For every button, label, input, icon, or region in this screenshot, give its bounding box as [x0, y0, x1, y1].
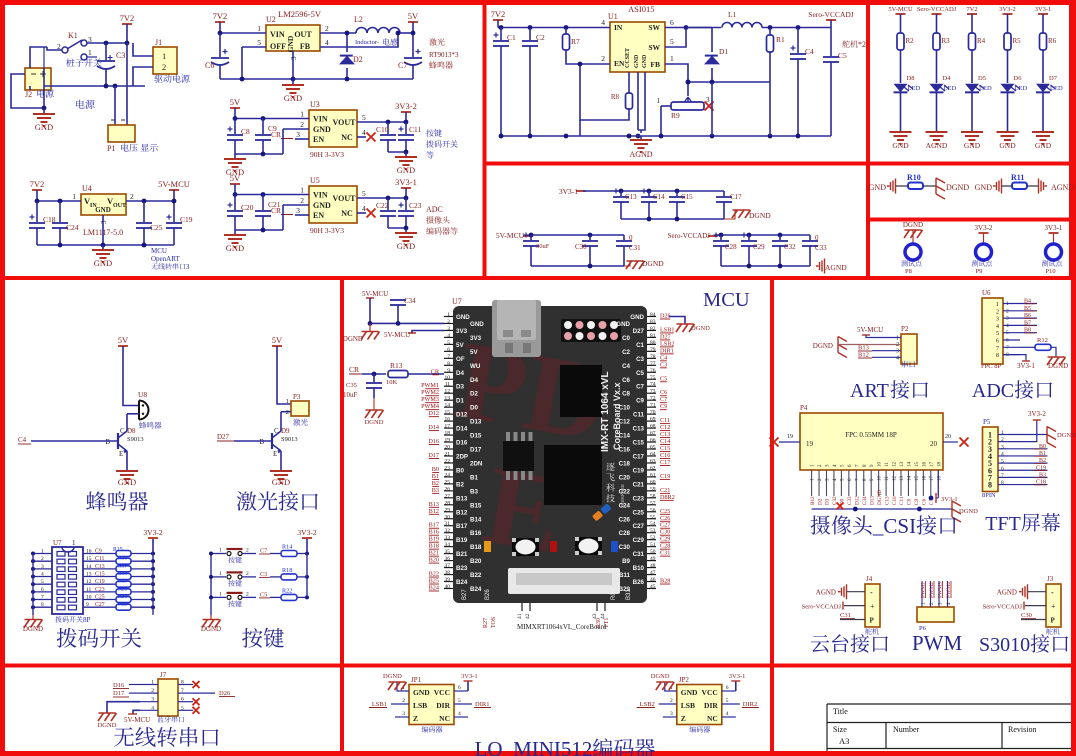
- svg-text:D16: D16: [428, 438, 439, 445]
- svg-text:D1: D1: [719, 47, 728, 56]
- svg-text:32: 32: [445, 528, 451, 534]
- svg-text:5V: 5V: [230, 97, 241, 107]
- P5 signal nets: [1008, 448, 1048, 450]
- connector P4 FPC 18P camera: [800, 413, 943, 470]
- capacitor C18: [35, 199, 40, 204]
- svg-text:VOUT: VOUT: [333, 194, 357, 203]
- svg-text:7V2: 7V2: [120, 13, 135, 23]
- svg-text:GND: GND: [630, 314, 644, 321]
- svg-text:2DP: 2DP: [456, 453, 468, 460]
- SW pin6 wire to L1: [665, 27, 721, 29]
- svg-text:PWM: PWM: [912, 631, 963, 655]
- svg-text:C13: C13: [884, 496, 890, 505]
- svg-text:6: 6: [670, 18, 674, 27]
- DGND for P5 pin1: [1008, 434, 1047, 436]
- svg-text:2: 2: [246, 548, 249, 554]
- svg-text:17: 17: [930, 462, 935, 468]
- svg-text:R22: R22: [282, 587, 292, 594]
- svg-text:5: 5: [41, 579, 44, 585]
- capacitor C3: [105, 43, 107, 60]
- LED D8: [894, 84, 908, 92]
- svg-text:3V3-2: 3V3-2: [297, 528, 316, 537]
- USB connector: [492, 300, 541, 357]
- svg-text:6: 6: [726, 685, 729, 691]
- svg-text:10: 10: [878, 462, 883, 468]
- svg-text:D3: D3: [825, 498, 831, 505]
- capacitor C24: [58, 199, 63, 204]
- svg-text:26: 26: [445, 486, 451, 492]
- connector P6 PWM: [917, 607, 954, 622]
- svg-text:C31: C31: [660, 550, 670, 557]
- svg-text:12: 12: [86, 579, 92, 585]
- section title wireless-serial: [114, 727, 134, 746]
- svg-text:1: 1: [996, 302, 999, 308]
- svg-text:GND: GND: [286, 35, 295, 52]
- capacitor C11: [405, 122, 407, 134]
- capacitor C1: [499, 25, 504, 30]
- svg-text:R11: R11: [1011, 173, 1024, 182]
- svg-text:5: 5: [257, 38, 261, 47]
- svg-text:C7: C7: [660, 396, 667, 403]
- svg-text:C3: C3: [116, 51, 125, 60]
- transistor D9 S9013: [271, 433, 273, 449]
- svg-text:B0: B0: [432, 466, 439, 473]
- svg-text:3: 3: [151, 697, 154, 703]
- capacitor C6: [218, 31, 223, 36]
- capacitor C20: [233, 192, 238, 197]
- svg-text:DGND: DGND: [201, 625, 221, 633]
- svg-text:78: 78: [650, 354, 656, 360]
- svg-text:35: 35: [445, 549, 451, 555]
- svg-text:DGND: DGND: [98, 722, 117, 729]
- svg-text:NC: NC: [341, 133, 353, 142]
- svg-text:B13: B13: [456, 495, 468, 502]
- svg-text:B1: B1: [432, 473, 439, 480]
- svg-text:D6: D6: [1014, 75, 1023, 82]
- svg-text:AGND: AGND: [825, 263, 847, 272]
- svg-text:1: 1: [300, 186, 304, 195]
- svg-text:8: 8: [181, 680, 184, 686]
- svg-text:C2: C2: [622, 349, 630, 356]
- svg-text:4: 4: [362, 204, 366, 213]
- DIP switch U7 body: [52, 547, 83, 614]
- svg-text:16: 16: [922, 476, 927, 482]
- svg-text:3: 3: [402, 711, 405, 717]
- LED D5: [965, 84, 979, 92]
- svg-text:C28: C28: [660, 543, 670, 550]
- svg-text:34: 34: [445, 542, 451, 548]
- svg-text:P: P: [1051, 617, 1056, 625]
- svg-text:C26: C26: [660, 515, 670, 522]
- svg-text:D2: D2: [817, 498, 823, 505]
- svg-text:1: 1: [896, 336, 899, 342]
- svg-text:59: 59: [650, 486, 656, 492]
- svg-text:LED: LED: [944, 85, 957, 92]
- svg-text:3: 3: [100, 220, 108, 224]
- svg-text:C34: C34: [862, 496, 868, 505]
- svg-text:IN: IN: [614, 23, 623, 32]
- svg-text:4: 4: [601, 18, 605, 27]
- svg-text:R27: R27: [483, 618, 489, 628]
- svg-text:79: 79: [650, 347, 656, 353]
- svg-text:GND: GND: [642, 54, 648, 68]
- svg-text:2: 2: [130, 192, 134, 201]
- svg-text:B3: B3: [432, 487, 439, 494]
- LED D4: [930, 84, 944, 92]
- svg-text:E: E: [119, 450, 123, 458]
- svg-text:B26: B26: [633, 579, 645, 586]
- svg-text:3: 3: [896, 349, 899, 355]
- svg-text:3V3-1: 3V3-1: [1017, 362, 1035, 370]
- svg-text:C9: C9: [95, 549, 102, 555]
- DIP left pins and rail: [33, 553, 52, 555]
- svg-text:EN: EN: [313, 135, 324, 144]
- svg-text:B24: B24: [429, 585, 439, 592]
- svg-text:C23: C23: [633, 495, 645, 502]
- svg-text:NC: NC: [341, 209, 353, 218]
- svg-text:C32: C32: [784, 243, 796, 251]
- svg-text:16: 16: [445, 417, 451, 423]
- svg-text:Sero-VCCADJ: Sero-VCCADJ: [917, 6, 957, 13]
- pin 19 left: [779, 441, 800, 443]
- svg-text:3V3: 3V3: [470, 335, 482, 342]
- svg-text:2: 2: [402, 698, 405, 704]
- svg-text:EN: EN: [614, 59, 625, 68]
- svg-text:GND: GND: [272, 477, 290, 487]
- svg-text:20: 20: [445, 445, 451, 451]
- svg-text:10: 10: [445, 375, 451, 381]
- svg-text:1: 1: [162, 51, 166, 61]
- svg-text:J3: J3: [1047, 575, 1054, 583]
- svg-text:DGND: DGND: [23, 625, 43, 633]
- svg-text:5: 5: [447, 340, 450, 346]
- svg-text:DGND: DGND: [383, 673, 402, 680]
- U3 output gnd: [388, 151, 406, 153]
- transistor Q U8 drive S9013: [117, 433, 119, 449]
- capacitor C8: [233, 116, 238, 121]
- svg-text:DGND: DGND: [903, 221, 923, 229]
- svg-text:LM2596-5V: LM2596-5V: [278, 9, 322, 19]
- svg-text:C0: C0: [622, 335, 630, 342]
- svg-text:B23: B23: [456, 565, 468, 572]
- svg-text:B13: B13: [429, 501, 439, 508]
- svg-text:C27: C27: [660, 522, 670, 529]
- LED D6: [1001, 84, 1015, 92]
- svg-text:Title: Title: [833, 707, 848, 716]
- switch K1: [30, 47, 47, 68]
- svg-text:D14: D14: [456, 426, 468, 433]
- DGND for keys: [210, 615, 212, 620]
- svg-text:R2: R2: [906, 37, 915, 45]
- svg-text:C3: C3: [260, 571, 267, 578]
- rail to pin2: [370, 322, 444, 324]
- svg-text:Sero-VCCADJ: Sero-VCCADJ: [983, 604, 1023, 611]
- svg-text:C12: C12: [660, 424, 670, 431]
- U3 input wires: [235, 118, 309, 120]
- svg-text:1: 1: [151, 680, 154, 686]
- svg-text:31: 31: [445, 521, 451, 527]
- svg-text:E: E: [273, 450, 277, 458]
- svg-text:DGND: DGND: [946, 183, 969, 192]
- connector J1 drive power: [153, 47, 177, 74]
- svg-text:D13: D13: [869, 496, 875, 505]
- U3 input gnd: [235, 153, 283, 155]
- power port 5V (laser): [272, 345, 282, 347]
- svg-text:49: 49: [650, 556, 656, 562]
- svg-text:3: 3: [447, 326, 450, 332]
- svg-text:TOS: TOS: [491, 617, 497, 628]
- svg-text:VOUT: VOUT: [333, 118, 357, 127]
- svg-text:C29: C29: [753, 243, 765, 251]
- capacitor C35 10uF: [373, 374, 375, 382]
- svg-text:C17: C17: [730, 193, 742, 201]
- svg-text:R1: R1: [776, 35, 785, 44]
- capacitor C29: [747, 233, 752, 238]
- svg-text:5V-MCU: 5V-MCU: [384, 331, 410, 339]
- svg-text:NC: NC: [439, 714, 450, 723]
- svg-text:8: 8: [447, 361, 450, 367]
- svg-text:R13: R13: [390, 361, 403, 370]
- svg-text:AGND: AGND: [816, 589, 836, 597]
- svg-text:D4: D4: [456, 370, 464, 377]
- no-connect pins: [193, 681, 200, 688]
- svg-text:U6: U6: [982, 289, 991, 297]
- svg-text:3V3-1: 3V3-1: [1035, 6, 1052, 13]
- svg-text:GND: GND: [470, 321, 484, 328]
- capacitor C25: [142, 199, 147, 204]
- svg-text:U2: U2: [266, 15, 276, 24]
- svg-text:5: 5: [726, 698, 729, 704]
- emitter to GND (laser): [280, 451, 282, 470]
- svg-text:11: 11: [885, 476, 890, 481]
- svg-text:D27: D27: [633, 328, 645, 335]
- power port 3V3-2 (LED column): [1003, 13, 1013, 15]
- NC pin no-connect: [357, 212, 366, 214]
- svg-text:B20: B20: [470, 558, 482, 565]
- svg-text:C12: C12: [619, 419, 631, 426]
- JP2 right pins: [722, 690, 736, 692]
- svg-text:B13: B13: [858, 345, 869, 352]
- svg-text:C4: C4: [805, 47, 814, 56]
- svg-text:J1: J1: [155, 38, 162, 47]
- svg-text:AGND: AGND: [997, 589, 1017, 597]
- svg-text:_CSI: _CSI: [872, 514, 916, 538]
- svg-text:12: 12: [445, 389, 451, 395]
- svg-text:C6: C6: [660, 389, 667, 396]
- svg-text:15: 15: [445, 410, 451, 416]
- svg-text:D4: D4: [943, 75, 952, 82]
- svg-text:14: 14: [907, 462, 912, 468]
- svg-text:3V3-2: 3V3-2: [1028, 410, 1046, 418]
- svg-text:C13: C13: [625, 193, 637, 201]
- svg-text:53: 53: [650, 528, 656, 534]
- svg-text:VCC: VCC: [702, 688, 718, 697]
- svg-text:D8: D8: [907, 75, 915, 82]
- svg-text:GND: GND: [397, 165, 415, 175]
- svg-text:D9: D9: [281, 427, 290, 435]
- JP1 right pins: [454, 690, 468, 692]
- connector J2 power input: [25, 68, 51, 90]
- pin3 wire down-left: [107, 702, 140, 713]
- svg-text:D17: D17: [428, 452, 439, 459]
- diode D1: [686, 27, 712, 29]
- annotation for 3V3-2: [426, 129, 434, 136]
- svg-text:B12: B12: [429, 508, 439, 515]
- svg-text:D2: D2: [353, 55, 363, 64]
- svg-text:B17: B17: [429, 522, 439, 529]
- svg-text:57: 57: [650, 500, 656, 506]
- svg-text:DGND: DGND: [365, 419, 384, 426]
- power port 7V2 (U4): [32, 189, 42, 191]
- svg-text:3V3-1: 3V3-1: [559, 187, 578, 196]
- capacitor C32: [778, 233, 783, 238]
- svg-text:GND: GND: [681, 688, 698, 697]
- svg-text:CR: CR: [349, 365, 359, 374]
- svg-text:C11: C11: [899, 496, 905, 505]
- svg-text:12: 12: [893, 476, 898, 482]
- svg-text:GND: GND: [975, 183, 993, 192]
- svg-text:PWM3: PWM3: [421, 396, 439, 403]
- svg-text:2DN: 2DN: [470, 460, 483, 467]
- svg-text:B31: B31: [626, 589, 632, 600]
- keys left rail: [210, 554, 212, 616]
- svg-text:C22: C22: [376, 201, 389, 210]
- svg-text:72: 72: [650, 396, 656, 402]
- svg-text:7: 7: [996, 346, 999, 352]
- svg-text:3V3-2: 3V3-2: [395, 101, 417, 111]
- svg-text:8: 8: [988, 481, 992, 490]
- svg-text:3V3-1: 3V3-1: [729, 673, 746, 680]
- svg-text:3: 3: [41, 564, 44, 570]
- svg-text:EN: EN: [313, 211, 324, 220]
- FPC connector bottom: [508, 568, 620, 594]
- svg-text:C3: C3: [660, 361, 667, 368]
- svg-text:B21: B21: [456, 551, 468, 558]
- svg-text:2: 2: [670, 698, 673, 704]
- svg-text:GND: GND: [869, 183, 887, 192]
- svg-text:LQ_MINI512: LQ_MINI512: [475, 737, 593, 756]
- svg-text:C8: C8: [241, 127, 250, 136]
- svg-text:C21: C21: [633, 481, 645, 488]
- svg-text:C16: C16: [619, 447, 631, 454]
- svg-text:C9: C9: [660, 403, 667, 410]
- svg-text:GND: GND: [634, 54, 640, 68]
- svg-text:B2: B2: [432, 480, 439, 487]
- svg-text:2: 2: [325, 24, 329, 33]
- svg-text:C31: C31: [633, 551, 645, 558]
- svg-text:B18: B18: [470, 544, 482, 551]
- svg-text:C10: C10: [376, 125, 389, 134]
- svg-text:B28: B28: [660, 578, 670, 585]
- svg-text:ASI015: ASI015: [628, 4, 654, 14]
- svg-text:45: 45: [650, 584, 656, 590]
- svg-text:B: B: [105, 438, 110, 446]
- resistor R6: [1040, 33, 1047, 50]
- svg-text:C31: C31: [840, 612, 851, 619]
- svg-text:C9: C9: [268, 124, 277, 133]
- AGND symbol: [640, 136, 642, 139]
- svg-text:54: 54: [650, 521, 656, 527]
- svg-text:7V2: 7V2: [491, 9, 506, 19]
- annotation right of LM2596: [429, 38, 437, 45]
- svg-text:U3: U3: [310, 100, 320, 109]
- svg-text:13: 13: [900, 462, 905, 468]
- ground GND U2: [292, 79, 294, 84]
- svg-text:C20: C20: [619, 474, 631, 481]
- svg-text:20: 20: [945, 434, 951, 440]
- svg-text:C19: C19: [660, 473, 670, 480]
- svg-text:2: 2: [246, 571, 249, 577]
- IC U1 ASI015: [610, 22, 665, 72]
- P4 DGND symbol: [952, 501, 961, 522]
- LED D7: [1036, 84, 1050, 92]
- svg-text:66: 66: [650, 438, 656, 444]
- right pin row: [647, 316, 656, 318]
- svg-text:6: 6: [41, 587, 44, 593]
- svg-text:C17: C17: [633, 453, 645, 460]
- svg-text:R17: R17: [118, 563, 127, 569]
- svg-text:17: 17: [930, 476, 935, 482]
- DGND for P2: [838, 337, 847, 358]
- svg-text:5V: 5V: [456, 342, 464, 349]
- svg-text:17: 17: [445, 424, 451, 430]
- svg-text:1: 1: [41, 549, 44, 555]
- svg-text:OUT: OUT: [294, 30, 312, 39]
- svg-text:VIN: VIN: [270, 30, 285, 39]
- svg-text:6: 6: [447, 347, 450, 353]
- svg-text:TFT: TFT: [985, 513, 1021, 535]
- resistor R18: [270, 576, 281, 578]
- svg-text:Z: Z: [681, 714, 686, 723]
- push button K2: [211, 553, 226, 555]
- svg-text:AGND: AGND: [926, 141, 948, 150]
- buzzer U8: [139, 401, 149, 420]
- svg-text:B1: B1: [470, 474, 478, 481]
- svg-text:CCSET: CCSET: [625, 48, 631, 68]
- svg-text:+: +: [870, 602, 875, 611]
- svg-text:1: 1: [447, 312, 450, 318]
- svg-text:69: 69: [650, 417, 656, 423]
- U4 bottom rail and ground: [37, 244, 174, 246]
- U1 gnd pins to AGND: [637, 72, 639, 130]
- power port 7V2 (LM2596): [215, 21, 225, 23]
- svg-text:12: 12: [893, 462, 898, 468]
- 5V-MCU J7: [133, 710, 140, 714]
- svg-text:B24: B24: [456, 579, 468, 586]
- svg-text:6: 6: [181, 697, 184, 703]
- pin wires U2: [220, 32, 266, 34]
- wires J1: [133, 43, 153, 56]
- capacitor C31: [623, 235, 625, 240]
- svg-text:P3: P3: [293, 393, 301, 401]
- svg-text:33: 33: [445, 535, 451, 541]
- svg-text:C26: C26: [619, 516, 631, 523]
- svg-text:5: 5: [362, 189, 366, 198]
- svg-text:C9: C9: [636, 398, 644, 405]
- top rail to IN: [498, 27, 610, 29]
- svg-text:P8: P8: [905, 268, 912, 275]
- svg-text:C23: C23: [95, 587, 105, 593]
- U5 output gnd: [388, 227, 406, 229]
- svg-text:S3010: S3010: [979, 634, 1030, 656]
- svg-text:2: 2: [300, 120, 304, 129]
- buzzer lower lead: [127, 413, 139, 415]
- section title keys: [242, 628, 262, 648]
- svg-text:C22: C22: [619, 488, 631, 495]
- svg-text:10: 10: [878, 476, 883, 482]
- svg-text:U4: U4: [82, 184, 92, 193]
- DGND under C35: [373, 398, 375, 410]
